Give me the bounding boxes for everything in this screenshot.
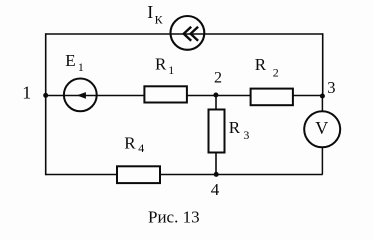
label R1 — [155, 55, 174, 78]
svg-text:R: R — [229, 118, 241, 137]
label R3 — [229, 118, 250, 142]
resistor R4 — [117, 166, 160, 183]
label R2 — [255, 55, 279, 80]
svg-text:E: E — [65, 51, 75, 70]
label node 3 — [327, 78, 335, 97]
svg-text:К: К — [155, 13, 164, 27]
wire: middle horizontal from node 1 through E1, R1, node 2, R2 to node 3 — [46, 95, 323, 97]
current source IK (circle with double chevron arrows) — [171, 16, 205, 50]
wire: top horizontal from node1 branch to right branch — [46, 33, 323, 35]
label R4 — [124, 133, 144, 155]
svg-text:3: 3 — [327, 78, 335, 97]
svg-text:1: 1 — [168, 63, 174, 77]
node 2 junction dot — [213, 93, 218, 98]
svg-text:4: 4 — [211, 180, 220, 199]
svg-text:2: 2 — [214, 69, 222, 86]
voltmeter V — [304, 111, 340, 147]
svg-text:R: R — [155, 55, 167, 74]
svg-text:I: I — [147, 2, 153, 22]
svg-text:3: 3 — [243, 128, 249, 142]
node 1 junction dot — [43, 93, 48, 98]
node 4 junction dot — [214, 172, 219, 177]
EMF source E1 (circle with left arrow) — [64, 79, 97, 112]
wire: bottom horizontal from left branch to voltmeter branch — [46, 174, 323, 176]
wire: R3 branch vertical from node 2 to node 4 — [215, 96, 217, 175]
svg-text:1: 1 — [78, 60, 84, 74]
svg-text:2: 2 — [273, 66, 279, 80]
label IK (current source) — [147, 2, 163, 27]
resistor R1 — [144, 86, 187, 102]
wire: voltmeter drop from node 3 down to bottom wire — [321, 96, 323, 175]
svg-text:Рис. 13: Рис. 13 — [148, 208, 200, 227]
resistor R2 — [251, 89, 293, 106]
svg-text:V: V — [315, 118, 328, 138]
caption Рис. 13 — [148, 208, 200, 227]
svg-text:4: 4 — [138, 141, 144, 155]
wire: left vertical between top wire and bottom wire — [45, 33, 47, 175]
label E1 (EMF source) — [65, 51, 84, 74]
svg-text:R: R — [124, 133, 136, 152]
label node 1 — [22, 83, 31, 103]
label node 2 — [214, 69, 222, 86]
svg-text:R: R — [255, 55, 267, 74]
node 3 junction dot — [320, 94, 325, 99]
wire: right vertical from top wire to node 3 — [322, 33, 324, 96]
resistor R3 — [209, 110, 225, 153]
svg-text:1: 1 — [22, 83, 31, 103]
label node 4 — [211, 180, 220, 199]
